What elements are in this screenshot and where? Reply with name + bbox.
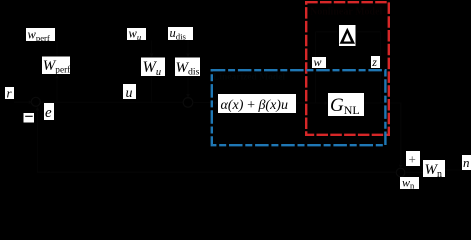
svg-text:α(x) + β(x)u: α(x) + β(x)u: [221, 98, 288, 113]
svg-text:e: e: [45, 105, 52, 121]
svg-text:n: n: [463, 155, 470, 170]
svg-text:u: u: [126, 86, 133, 101]
svg-text:z: z: [371, 55, 377, 69]
svg-text:Linearized Model: Linearized Model: [213, 73, 285, 83]
svg-text:+: +: [409, 151, 416, 166]
svg-text:Nonlinear Model: Nonlinear Model: [310, 7, 383, 18]
svg-text:w: w: [314, 55, 322, 69]
